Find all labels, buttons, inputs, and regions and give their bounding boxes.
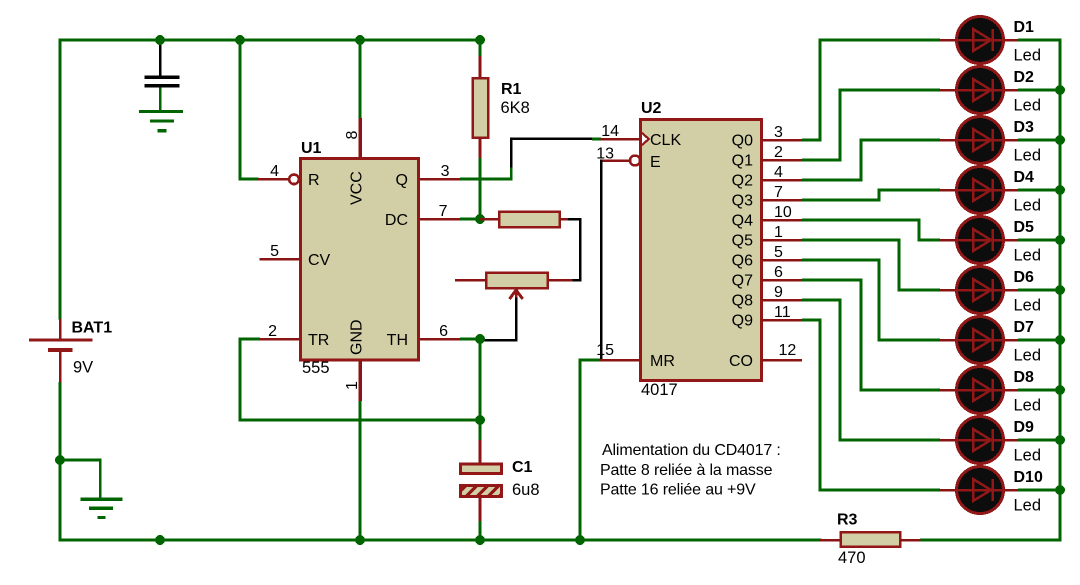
pin 8 stub (VCC)	[359, 118, 362, 158]
svg-text:Q2: Q2	[732, 173, 753, 190]
wire RV1 right corner horizontal	[571, 279, 582, 282]
svg-text:555: 555	[302, 359, 330, 377]
svg-text:D7: D7	[1014, 319, 1035, 336]
svg-text:2: 2	[268, 323, 277, 340]
wire LED D8 cathode to bus	[1018, 389, 1059, 392]
LED D7	[939, 317, 1020, 364]
wire TH to node	[460, 338, 480, 341]
svg-text:4017: 4017	[641, 381, 678, 399]
svg-text:BAT1: BAT1	[72, 320, 113, 337]
wire ground stem	[99, 459, 102, 498]
pin 1 stub (GND)	[359, 360, 362, 401]
wire R2 right corner horizontal	[568, 218, 582, 221]
wire LED D4 cathode to bus	[1018, 189, 1059, 192]
pin 6 stub (Q7)	[762, 279, 802, 282]
svg-text:3: 3	[441, 163, 450, 180]
wire right cathode bus vertical	[1059, 39, 1062, 542]
RV1 left pin (dangling)	[455, 279, 486, 282]
svg-text:R1: R1	[501, 81, 522, 98]
wire wiper vertical	[515, 298, 518, 342]
wire branch to ground	[60, 459, 102, 462]
wire Q0 horizontal	[802, 139, 822, 142]
wire Q6 horizontal	[802, 259, 881, 262]
R3 left pin	[820, 539, 841, 542]
svg-text:Led: Led	[1014, 97, 1042, 115]
pin 12 stub (CO)	[762, 359, 802, 362]
R1 top pin	[479, 56, 482, 78]
pin 14 stub (CLK)	[601, 138, 641, 141]
svg-text:VCC: VCC	[349, 171, 366, 205]
wire C1 top green	[479, 419, 482, 442]
LED D10	[939, 467, 1020, 514]
C1 top pin	[479, 440, 482, 464]
svg-text:Led: Led	[1014, 397, 1042, 415]
wire LED D1 cathode to bus	[1018, 39, 1059, 42]
svg-text:9V: 9V	[73, 359, 93, 377]
pin 7 stub (Q3)	[762, 199, 802, 202]
wire Q4 to LED D5	[918, 239, 941, 242]
pin 2 stub (TR)	[260, 338, 300, 341]
wire Q3 vertical up	[878, 189, 881, 202]
pin battery positive	[59, 319, 62, 339]
junction bottom rail at MR wire	[575, 535, 585, 545]
wire Q1 vertical up	[839, 89, 842, 162]
svg-text:9: 9	[774, 284, 783, 301]
wire CLK wire green part	[592, 138, 601, 141]
svg-text:Led: Led	[1014, 147, 1042, 165]
svg-text:1: 1	[774, 224, 783, 241]
wire Q7 to LED D8	[860, 389, 941, 392]
svg-text:Q7: Q7	[732, 273, 753, 290]
wire Q3 to LED D4	[878, 189, 941, 192]
junction bus at D8	[1055, 385, 1065, 395]
wire Q7 vertical down	[860, 279, 863, 392]
svg-text:7: 7	[439, 203, 448, 220]
junction bus at D10	[1055, 485, 1065, 495]
pin 13 stub (E)	[601, 159, 629, 162]
svg-text:D4: D4	[1014, 169, 1035, 186]
LED D8	[939, 367, 1020, 414]
svg-text:10: 10	[774, 204, 792, 221]
svg-text:U2: U2	[641, 100, 662, 117]
wire Q8 to LED D9	[839, 439, 941, 442]
wire Q5 to LED D6	[898, 289, 941, 292]
pin 11 stub (Q9)	[762, 319, 802, 322]
wire R pin horizontal	[239, 178, 259, 181]
svg-text:6: 6	[439, 323, 448, 340]
svg-text:E: E	[650, 154, 661, 171]
pin 5 stub (CV)	[260, 258, 300, 261]
pin 1 stub (Q5)	[762, 239, 802, 242]
wire Q9 vertical down	[819, 319, 822, 492]
svg-text:Led: Led	[1014, 197, 1042, 215]
svg-text:Q9: Q9	[732, 313, 753, 330]
svg-text:Led: Led	[1014, 447, 1042, 465]
wire LED D7 cathode to bus	[1018, 339, 1059, 342]
svg-text:3: 3	[774, 124, 783, 141]
wire Q6 to LED D7	[878, 339, 941, 342]
wire Q8 horizontal	[802, 299, 842, 302]
pin 10 stub (Q4)	[762, 219, 802, 222]
svg-text:2: 2	[774, 144, 783, 161]
pin 3 stub (Q0)	[762, 139, 802, 142]
svg-text:6u8: 6u8	[512, 481, 540, 499]
svg-text:CO: CO	[729, 353, 753, 370]
svg-text:12: 12	[779, 342, 797, 359]
RV1 right pin	[548, 279, 573, 282]
wire LED D10 cathode to bus	[1018, 489, 1059, 492]
svg-text:R3: R3	[837, 512, 858, 529]
wire Q0 vertical up	[819, 39, 822, 142]
junction bus at D9	[1055, 435, 1065, 445]
ground symbol below decoupling cap	[139, 110, 183, 132]
C1 bottom pin	[479, 497, 482, 522]
wire Q0 to LED D1	[819, 39, 941, 42]
svg-text:D6: D6	[1014, 269, 1035, 286]
wire DC to node	[460, 218, 480, 221]
svg-text:Led: Led	[1014, 497, 1042, 515]
wire Q5 horizontal	[802, 239, 901, 242]
wire C1 to bottom rail	[479, 521, 482, 542]
IC U2 4017 body	[641, 120, 762, 381]
junction top rail at VCC	[355, 35, 365, 45]
svg-text:TR: TR	[308, 332, 329, 349]
pin 5 stub (Q6)	[762, 259, 802, 262]
wire Q9 horizontal	[802, 319, 822, 322]
svg-text:5: 5	[270, 243, 279, 260]
wire Q2 to LED D3	[860, 139, 941, 142]
svg-text:13: 13	[596, 146, 614, 163]
junction top rail at R1	[475, 35, 485, 45]
junction bus at D7	[1055, 335, 1065, 345]
svg-text:R: R	[308, 172, 320, 189]
wire LED D9 cathode to bus	[1018, 439, 1059, 442]
svg-text:D8: D8	[1014, 369, 1035, 386]
wire Q6 vertical down	[878, 259, 881, 342]
wire LED D5 cathode to bus	[1018, 239, 1059, 242]
svg-text:Q0: Q0	[732, 133, 753, 150]
wire Q9 to LED D10	[819, 489, 941, 492]
svg-text:D2: D2	[1014, 69, 1035, 86]
svg-text:C1: C1	[512, 459, 533, 476]
svg-text:Patte 8 reliée à la masse: Patte 8 reliée à la masse	[600, 462, 773, 479]
resistor R1 body	[473, 78, 489, 138]
wire Q1 to LED D2	[839, 89, 941, 92]
wire Q corner vertical black part	[510, 138, 513, 168]
wire Q3 horizontal	[802, 199, 881, 202]
R1 bottom pin	[479, 138, 482, 159]
wire Q to CLK horizontal	[510, 138, 592, 141]
wire E to MR vertical	[600, 159, 603, 360]
pin 4 stub (R)	[257, 178, 290, 181]
svg-text:Q5: Q5	[732, 233, 753, 250]
svg-text:GND: GND	[349, 319, 366, 355]
pin battery negative	[59, 352, 62, 383]
wire rail to R1	[479, 39, 482, 57]
junction bus at D6	[1055, 285, 1065, 295]
pin 3 stub (Q)	[420, 178, 460, 181]
LED D3	[939, 117, 1020, 164]
svg-text:Q1: Q1	[732, 153, 753, 170]
LED D2	[939, 67, 1020, 114]
svg-text:Led: Led	[1014, 47, 1042, 65]
capacitor C1 positive plate	[461, 464, 502, 474]
svg-text:DC: DC	[385, 212, 408, 229]
svg-text:470: 470	[838, 549, 866, 567]
wire rail to R pin vertical	[239, 39, 242, 181]
wire wiper horizontal to TH node	[480, 339, 517, 342]
wire rail to VCC	[359, 39, 362, 120]
svg-text:TH: TH	[387, 332, 408, 349]
junction bus at D2	[1055, 85, 1065, 95]
junction node TR/TH/C1	[475, 415, 485, 425]
svg-text:8: 8	[344, 131, 361, 140]
svg-text:Q8: Q8	[732, 293, 753, 310]
R3 right pin	[900, 539, 921, 542]
LED D9	[939, 417, 1020, 464]
pin 6 stub (TH)	[420, 338, 460, 341]
svg-text:7: 7	[774, 184, 783, 201]
LED D4	[939, 167, 1020, 214]
wire TR vertical down	[239, 338, 242, 422]
wire Q8 vertical down	[839, 299, 842, 442]
wire MR vertical to bottom rail	[579, 359, 582, 542]
wire capacitor top stem	[159, 40, 162, 76]
svg-text:D9: D9	[1014, 419, 1035, 436]
svg-text:U1: U1	[301, 140, 322, 157]
svg-text:11: 11	[774, 304, 791, 321]
resistor R3 body	[841, 532, 901, 547]
svg-text:Led: Led	[1014, 347, 1042, 365]
junction bottom rail at battery ground column	[155, 535, 165, 545]
wire LED D3 cathode to bus	[1018, 139, 1059, 142]
pin 15 stub (MR)	[600, 359, 640, 362]
junction bus at D5	[1055, 235, 1065, 245]
junction node battery/ground	[55, 455, 65, 465]
wire R2 to RV1 vertical	[579, 218, 582, 282]
junction top rail at R-pin wire	[235, 35, 245, 45]
ground symbol near battery	[81, 498, 123, 520]
wire LED D2 cathode to bus	[1018, 89, 1059, 92]
wire Q5 vertical down	[898, 239, 901, 292]
LED D5	[939, 217, 1020, 264]
R2 right pin	[560, 218, 569, 221]
wire Q corner vertical green part	[510, 166, 513, 181]
wire bottom ground rail	[59, 539, 822, 542]
svg-text:14: 14	[601, 123, 619, 140]
clock input triangle marker on U2 CLK	[642, 133, 649, 145]
svg-text:D10: D10	[1014, 469, 1043, 486]
pin 4 stub (Q2)	[762, 179, 802, 182]
svg-text:4: 4	[270, 163, 279, 180]
op-amp/IC U1 555 body	[301, 159, 419, 361]
wire Q1 horizontal	[802, 159, 842, 162]
potentiometer RV1 body	[486, 273, 548, 289]
junction node DC/R1/R2	[475, 214, 485, 224]
wire TR horizontal	[239, 338, 261, 341]
pin 7 stub (DC)	[420, 218, 460, 221]
junction bus at D4	[1055, 185, 1065, 195]
svg-text:5: 5	[774, 244, 783, 261]
svg-text:4: 4	[774, 164, 783, 181]
RV1 wiper arrow	[510, 290, 523, 300]
junction bottom rail at GND pin	[355, 535, 365, 545]
wire cathode bus bottom horizontal	[920, 539, 1060, 542]
wire left vertical from rail to battery	[59, 39, 62, 320]
svg-text:D1: D1	[1014, 19, 1035, 36]
svg-text:CV: CV	[308, 252, 331, 269]
capacitor C? top-left decoupling, plates	[145, 76, 180, 88]
junction bottom rail at C1	[475, 535, 485, 545]
svg-text:6: 6	[774, 264, 783, 281]
svg-text:1: 1	[344, 381, 361, 390]
svg-text:Patte 16 reliée au +9V: Patte 16 reliée au +9V	[600, 482, 756, 499]
junction node TH/wiper/C1	[475, 334, 485, 344]
svg-text:Alimentation du CD4017 :: Alimentation du CD4017 :	[602, 442, 781, 459]
svg-text:MR: MR	[650, 353, 675, 370]
wire TH node vertical	[479, 338, 482, 422]
wire left vertical battery to bottom rail	[59, 382, 62, 542]
LED D1	[939, 17, 1020, 64]
svg-text:Q4: Q4	[732, 213, 753, 230]
wire R1 to DC node	[479, 158, 482, 221]
svg-text:D3: D3	[1014, 119, 1035, 136]
wire top +9V rail	[59, 39, 482, 42]
svg-text:15: 15	[596, 342, 614, 359]
wire Q2 horizontal	[802, 179, 863, 182]
LED D6	[939, 267, 1020, 314]
R2 left pin	[480, 218, 499, 221]
wire GND pin to bottom rail	[359, 401, 362, 542]
pin 9 stub (Q8)	[762, 299, 802, 302]
junction top rail at decoupling cap	[155, 35, 165, 45]
svg-text:CLK: CLK	[650, 132, 681, 149]
pin 2 stub (Q1)	[762, 159, 802, 162]
wire Q7 horizontal	[802, 279, 863, 282]
svg-text:Led: Led	[1014, 247, 1042, 265]
svg-text:Q: Q	[396, 172, 408, 189]
svg-text:6K8: 6K8	[501, 99, 530, 117]
inversion bubble on U1 pin 4 R	[289, 175, 299, 185]
battery BAT1 plates	[29, 338, 93, 352]
wire Q4 vertical down	[918, 219, 921, 242]
wire Q output horizontal	[460, 178, 512, 181]
svg-text:D5: D5	[1014, 219, 1035, 236]
wire MR horizontal	[579, 359, 601, 362]
wire capacitor bottom stem	[159, 88, 162, 111]
wire Q2 vertical up	[860, 139, 863, 182]
junction bus at D3	[1055, 135, 1065, 145]
inversion bubble on U2 pin 13 E	[630, 156, 640, 166]
wire TR to TH/C1 horizontal	[239, 419, 482, 422]
note text block about CD4017 supply	[600, 442, 781, 499]
wire LED D6 cathode to bus	[1018, 289, 1059, 292]
svg-text:Led: Led	[1014, 297, 1042, 315]
capacitor C1 negative hatched plate	[461, 486, 502, 497]
wire Q4 horizontal	[802, 219, 921, 222]
resistor R2 body	[499, 212, 560, 228]
svg-text:Q3: Q3	[732, 193, 753, 210]
svg-text:Q6: Q6	[732, 253, 753, 270]
